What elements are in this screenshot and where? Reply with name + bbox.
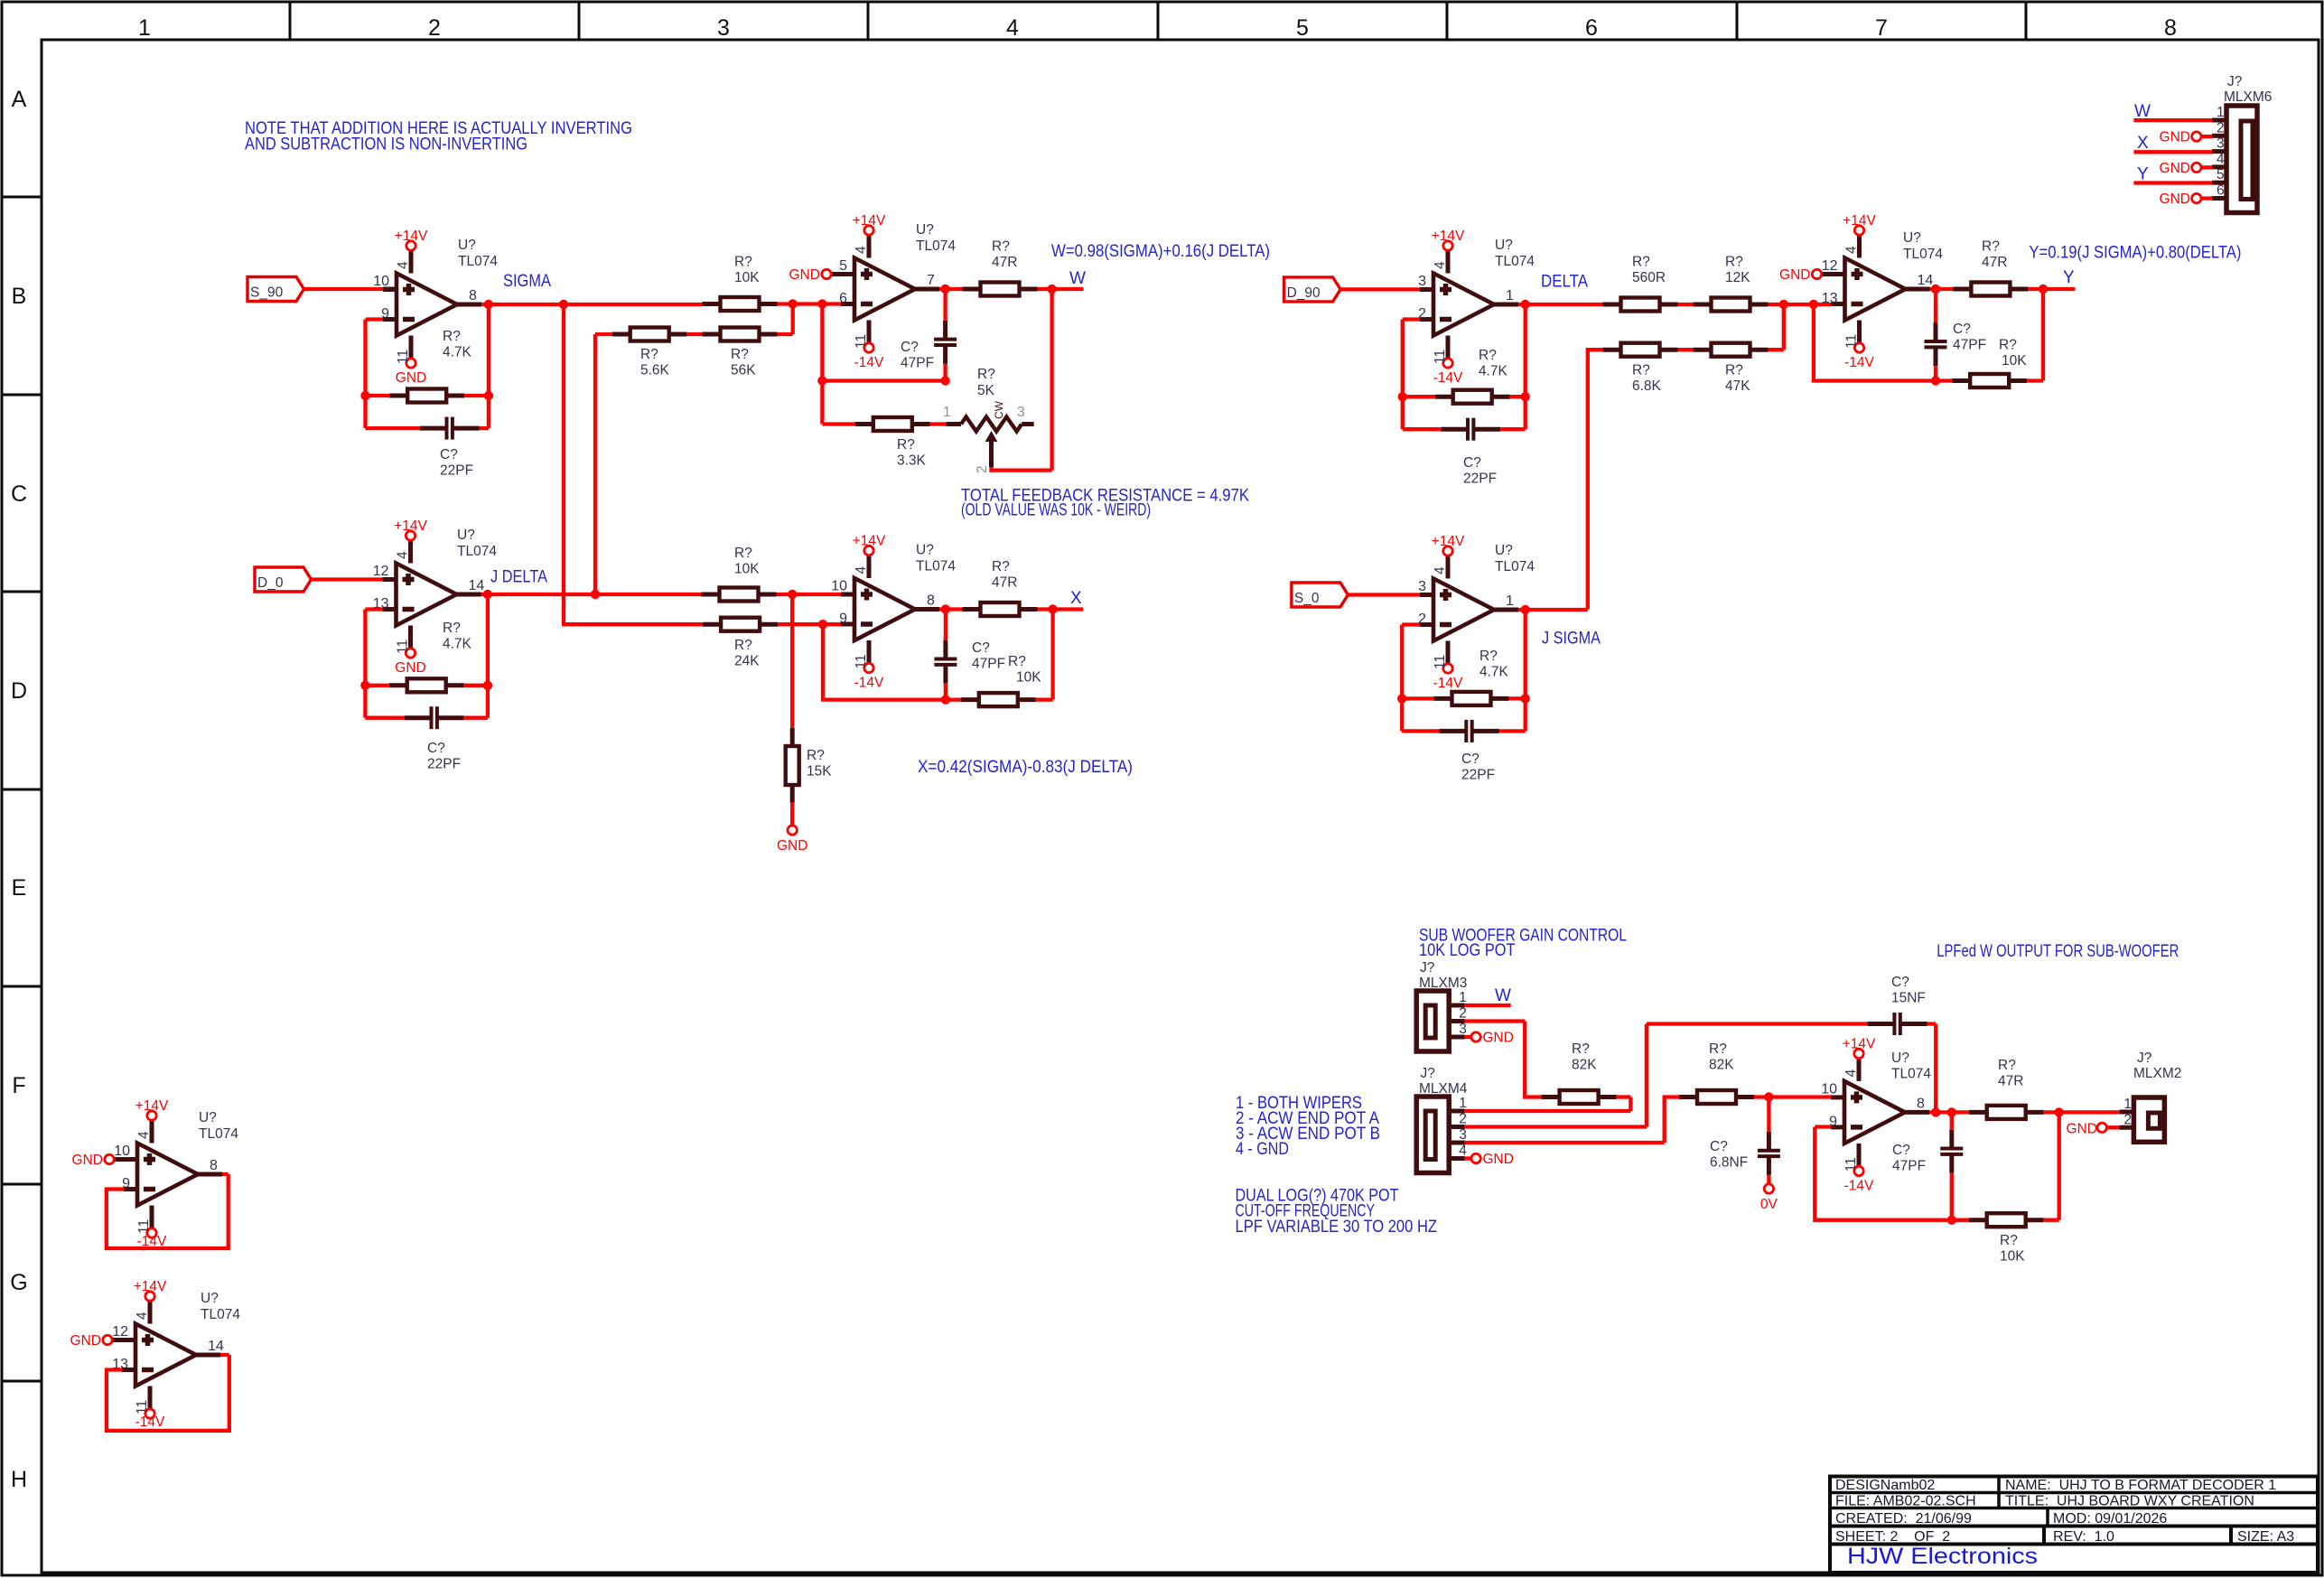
svg-text:11: 11 [135,1400,150,1415]
svg-text:U?: U? [1903,230,1921,246]
op-amp U? TL074 (S_0 buffer) [1433,579,1494,641]
wire 10K to X plus input [777,593,842,596]
svg-text:GND: GND [70,1333,101,1349]
power GND MLXM6 pin4 [2192,163,2201,172]
svg-text:14: 14 [208,1339,224,1354]
svg-text:47R: 47R [1998,1074,2023,1089]
resistor R? 10K (X feedback) [961,697,979,702]
svg-text:11: 11 [1844,334,1860,349]
resistor R? 560R [1603,303,1621,307]
svg-text:5: 5 [2217,167,2225,182]
capacitor C? 6.8NF [1767,1097,1770,1132]
svg-text:TL074: TL074 [916,559,956,574]
svg-text:GND: GND [2160,161,2190,176]
wire sub feedback lower rail [1815,1127,1968,1220]
svg-text:3: 3 [1017,405,1025,420]
svg-text:11: 11 [1433,350,1448,364]
svg-text:MOD: 09/01/2026: MOD: 09/01/2026 [2053,1511,2167,1527]
svg-text:15K: 15K [807,764,832,780]
wire X feedback right riser [1036,610,1053,700]
svg-text:LPF VARIABLE 30 TO 200 HZ: LPF VARIABLE 30 TO 200 HZ [1236,1218,1438,1237]
svg-text:10K: 10K [734,270,760,285]
wire sub feedback right riser [2044,1112,2059,1219]
svg-text:R?: R? [807,748,825,763]
svg-text:W=0.98(SIGMA)+0.16(J DELTA): W=0.98(SIGMA)+0.16(J DELTA) [1051,242,1270,261]
resistor R? 47R (X out) [963,607,981,612]
svg-text:J?: J? [2227,74,2243,89]
svg-text:4: 4 [854,246,869,254]
op-amp U? TL074 (X sum) [854,578,915,640]
op-amp U? TL074 (sub-woofer LPF) [1844,1081,1905,1144]
svg-text:GND: GND [72,1153,103,1168]
svg-text:10: 10 [373,274,389,289]
wire S_0 feedback left vertical [1402,625,1420,732]
resistor R? 10K (sub feedback) [1969,1218,1987,1222]
svg-text:5K: 5K [977,383,995,398]
svg-text:3: 3 [2217,136,2225,152]
svg-text:1: 1 [1506,288,1514,303]
svg-text:R?: R? [734,546,752,561]
svg-text:TL074: TL074 [1891,1067,1931,1082]
svg-text:0V: 0V [1760,1197,1778,1212]
svg-text:8: 8 [469,288,477,303]
wire node A to W minus input [778,302,842,305]
svg-text:R?: R? [1709,1041,1727,1057]
svg-text:7: 7 [1875,15,1888,41]
wire 5.6K-56K row [595,304,793,334]
wire X output row [939,607,963,611]
svg-text:F: F [12,1073,25,1098]
svg-text:TL074: TL074 [458,254,498,269]
svg-text:REV: 1.0: REV: 1.0 [2053,1529,2114,1545]
wire D_90 feedback right vertical [1524,304,1527,429]
svg-text:W: W [1069,269,1086,288]
svg-text:NAME: UHJ TO B FORMAT DECODER: NAME: UHJ TO B FORMAT DECODER 1 [2005,1478,2276,1493]
port D_90 [1284,277,1341,302]
svg-text:W: W [1495,986,1511,1005]
svg-text:12K: 12K [1725,270,1750,285]
svg-text:GND: GND [1779,267,1810,283]
svg-text:U?: U? [1891,1050,1909,1066]
top ruler ticks [289,2,292,40]
svg-text:GND: GND [396,370,426,386]
svg-text:X: X [2137,134,2149,153]
potentiometer R? 5K [946,422,961,426]
wire MLXM4 pin3 row [1465,1097,1679,1144]
power GND MLXM6 pin2 [2192,132,2201,141]
svg-text:11: 11 [854,334,869,349]
svg-text:4: 4 [136,1131,152,1139]
wire W feedback lower rail [822,304,945,425]
svg-text:4.7K: 4.7K [1479,665,1509,680]
svg-text:10K: 10K [2002,353,2027,369]
wire X to MLXM6 pin3 [2133,150,2212,154]
svg-text:X=0.42(SIGMA)-0.83(J DELTA): X=0.42(SIGMA)-0.83(J DELTA) [918,758,1133,777]
svg-text:+14V: +14V [1843,213,1876,229]
svg-text:U?: U? [199,1110,217,1125]
svg-text:H: H [11,1467,27,1492]
svg-text:U?: U? [457,528,475,543]
svg-text:47R: 47R [992,575,1017,591]
svg-text:4: 4 [1006,15,1019,41]
svg-text:+14V: +14V [1432,534,1465,549]
capacitor C? 15NF [1647,1022,1868,1025]
svg-text:J DELTA: J DELTA [490,568,547,587]
wire 47R to W node [1038,287,1084,291]
svg-text:4: 4 [1433,566,1448,574]
svg-text:GND: GND [2160,191,2190,207]
power 0V [1764,1184,1773,1193]
svg-text:R?: R? [992,239,1010,255]
svg-text:11: 11 [1433,655,1448,669]
wire 47R to MLXM2 [2044,1110,2120,1114]
svg-text:2: 2 [1459,1112,1467,1127]
svg-text:D: D [11,678,27,704]
wire 560R-12K row to Y minus [1678,303,1832,306]
svg-text:47PF: 47PF [1953,338,1986,353]
svg-text:4.7K: 4.7K [443,345,472,360]
svg-text:12: 12 [112,1324,128,1340]
resistor R? 10K (Y feedback) [1952,378,1970,383]
svg-text:GND: GND [1483,1152,1514,1167]
svg-text:10K LOG POT: 10K LOG POT [1419,941,1516,960]
svg-text:TITLE: UHJ BOARD WXY CREATION: TITLE: UHJ BOARD WXY CREATION [2005,1494,2254,1509]
wire 47R to X node [1038,607,1084,611]
svg-text:22PF: 22PF [440,463,473,479]
svg-text:CREATED: 21/06/99: CREATED: 21/06/99 [1835,1511,1972,1527]
svg-text:3: 3 [717,15,730,41]
svg-text:12: 12 [1822,258,1838,274]
resistor R? 5.6K [612,332,630,337]
svg-text:R?: R? [443,621,461,636]
wire SIGMA output row [481,303,703,306]
svg-text:11: 11 [1843,1157,1859,1172]
svg-text:2: 2 [2123,1112,2132,1127]
svg-text:-14V: -14V [135,1415,165,1430]
svg-text:U?: U? [916,222,934,238]
svg-text:+14V: +14V [134,1279,167,1294]
svg-text:22PF: 22PF [427,757,461,772]
svg-text:DELTA: DELTA [1541,273,1588,292]
svg-text:14: 14 [469,578,485,593]
svg-text:J?: J? [1420,960,1435,976]
wire Y to MLXM6 pin5 [2133,181,2212,184]
capacitor C? 22PF (D_0 feedback) [405,715,432,720]
svg-text:C?: C? [1461,752,1479,767]
svg-text:+14V: +14V [395,229,428,244]
svg-text:10K: 10K [1016,670,1041,686]
svg-text:CW: CW [993,400,1005,419]
resistor R? 12K [1694,303,1712,307]
svg-text:R?: R? [1479,348,1497,363]
wire DELTA output row [1518,303,1603,306]
svg-text:-14V: -14V [854,676,884,691]
resistor R? 82K (second) [1679,1095,1697,1099]
wire spare F feedback loop [107,1174,229,1248]
connector J? MLXM6 [2226,106,2257,213]
wire J DELTA output row [481,593,703,596]
svg-text:2: 2 [428,15,441,41]
title block frame [1830,1477,2318,1573]
power GND (15K) [788,826,797,835]
svg-text:R?: R? [992,559,1010,574]
svg-text:TL074: TL074 [1903,247,1943,262]
wire MLXM4 pin1 row [1465,1097,1631,1112]
resistor R? 4.7K (D_90 feedback) [1435,395,1453,399]
wire Y output row [1930,287,1954,291]
svg-text:MLXM4: MLXM4 [1419,1081,1468,1097]
svg-text:4.7K: 4.7K [1479,364,1508,379]
wire X feedback lower rail [823,624,961,699]
resistor R? 47K [1694,348,1712,352]
svg-text:C?: C? [972,640,990,656]
connector J? MLXM2 [2133,1097,2164,1142]
svg-text:R?: R? [734,638,752,653]
op-amp U? TL074 (spare F) [137,1144,198,1206]
svg-text:4 - GND: 4 - GND [1236,1140,1289,1159]
svg-text:6: 6 [839,291,847,306]
svg-text:DESIGNamb02: DESIGNamb02 [1835,1478,1935,1493]
svg-text:9: 9 [839,612,847,627]
wire 3.3K to pot [930,422,947,425]
port S_0 [1292,583,1349,607]
svg-text:3: 3 [1418,579,1426,594]
svg-text:D_0: D_0 [257,575,284,591]
wire Y feedback lower rail [1814,304,1952,381]
svg-text:560R: 560R [1632,270,1666,285]
capacitor C? 47PF (W feedback) [943,289,947,321]
svg-text:U?: U? [458,238,476,253]
svg-text:14: 14 [1918,273,1934,288]
resistor R? 47R (sub out) [1969,1110,1987,1115]
capacitor C? 22PF (D_90 feedback) [1441,427,1468,432]
resistor R? 10K (J DELTA to X) [702,593,720,597]
svg-text:GND: GND [789,267,820,283]
svg-text:1: 1 [1506,593,1514,609]
svg-text:B: B [12,284,27,309]
wire Y feedback right riser [2027,289,2043,381]
svg-text:4: 4 [396,551,411,559]
resistor R? 24K (SIGMA to X) [703,622,721,627]
wire D_0 to pin12 [312,577,384,581]
svg-text:8: 8 [2164,15,2177,41]
port S_90 [247,277,304,302]
svg-text:82K: 82K [1572,1058,1597,1073]
svg-text:10: 10 [831,579,847,594]
wire D_0 feedback right vertical [486,594,490,718]
svg-text:C?: C? [1892,1143,1910,1158]
svg-text:J?: J? [2137,1050,2152,1066]
svg-text:Y=0.19(J SIGMA)+0.80(DELTA): Y=0.19(J SIGMA)+0.80(DELTA) [2029,244,2241,263]
power GND MLXM6 pin6 [2192,193,2201,202]
svg-text:C?: C? [1463,455,1481,471]
svg-text:47R: 47R [1982,255,2007,270]
svg-text:+14V: +14V [394,518,427,534]
svg-text:2: 2 [975,465,990,473]
svg-text:4: 4 [396,261,411,269]
svg-text:D_90: D_90 [1287,285,1321,301]
svg-text:6.8NF: 6.8NF [1710,1155,1748,1171]
svg-text:3: 3 [1459,1022,1467,1037]
svg-text:R?: R? [1999,338,2017,353]
op-amp U? TL074 (Y sum) [1845,258,1906,321]
svg-text:A: A [12,87,27,112]
wire 82K2 to sub op-amp [1754,1095,1832,1098]
svg-text:8: 8 [210,1158,218,1173]
svg-text:-14V: -14V [1433,370,1463,386]
svg-text:R?: R? [1725,255,1743,270]
svg-text:4: 4 [1459,1144,1467,1159]
svg-text:1: 1 [943,405,951,420]
resistor R? 47R (W out) [963,287,981,292]
wire S_90 to pin10 [304,287,384,291]
svg-text:TL074: TL074 [199,1126,238,1142]
svg-text:GND: GND [2067,1121,2097,1136]
svg-text:MLXM2: MLXM2 [2133,1066,2181,1081]
resistor R? 47R (Y out) [1953,287,1971,292]
svg-text:4: 4 [2217,152,2225,167]
svg-text:4: 4 [1433,261,1448,269]
svg-text:R?: R? [2000,1233,2018,1248]
svg-text:3.3K: 3.3K [897,453,927,469]
svg-text:C?: C? [427,741,445,756]
svg-text:R?: R? [977,367,995,382]
svg-text:47PF: 47PF [901,356,934,371]
capacitor C? 22PF (op1 feedback) [420,426,447,431]
connector J? MLXM3 [1416,991,1449,1051]
svg-text:+14V: +14V [1843,1036,1876,1051]
power GND MLXM2 pin2 [2097,1123,2106,1132]
svg-text:U?: U? [916,543,934,558]
svg-text:R?: R? [640,347,658,362]
svg-text:U?: U? [1495,238,1513,253]
capacitor C? 47PF (Y feedback) [1934,289,1937,322]
svg-text:GND: GND [395,660,425,676]
wire D_90 feedback left vertical [1403,320,1420,430]
svg-text:R?: R? [731,347,749,362]
wire J DELTA riser x659 [593,334,597,594]
op-amp U? TL074 (spare G) [135,1324,196,1387]
svg-text:C?: C? [1953,322,1971,337]
svg-text:47R: 47R [992,255,1017,270]
connector J? MLXM4 [1416,1097,1449,1173]
svg-text:R?: R? [1632,363,1650,378]
svg-text:U?: U? [1495,543,1513,558]
svg-text:11: 11 [396,350,411,364]
left ruler ticks [2,196,42,199]
svg-text:22PF: 22PF [1461,768,1495,783]
svg-text:S_90: S_90 [250,285,284,301]
svg-text:R?: R? [1572,1041,1590,1057]
svg-text:4.7K: 4.7K [443,637,472,652]
svg-text:FILE: AMB02-02.SCH: FILE: AMB02-02.SCH [1835,1494,1976,1509]
wire 47R to Y node [2028,287,2075,291]
svg-text:7: 7 [927,273,935,288]
wire spare G feedback loop [107,1355,229,1431]
svg-text:R?: R? [897,437,915,453]
wire SIGMA vertical down [564,304,703,624]
svg-text:GND: GND [777,838,807,854]
svg-text:C?: C? [1710,1139,1728,1154]
wire MLXM3 pin2 to 82K [1465,1022,1542,1097]
svg-text:Y: Y [2137,165,2149,184]
wire sub op-amp output row [1929,1110,1969,1114]
svg-text:HJW Electronics: HJW Electronics [1847,1544,2038,1569]
power GND MLXM4 pin4 [1471,1153,1480,1162]
svg-text:10: 10 [114,1144,130,1159]
svg-text:13: 13 [1822,291,1838,306]
svg-text:E: E [12,875,27,901]
svg-text:G: G [10,1270,27,1295]
svg-text:10K: 10K [2000,1249,2025,1265]
svg-text:24K: 24K [734,654,760,669]
wire D_90 to pin3 [1340,287,1420,291]
svg-text:R?: R? [1008,654,1026,669]
wire 6.8K-47K row [1588,304,1784,610]
svg-text:-14V: -14V [1844,1178,1874,1193]
resistor R? 4.7K (S_0 feedback) [1434,696,1452,701]
svg-text:10: 10 [1821,1081,1837,1097]
svg-text:S_0: S_0 [1294,591,1320,606]
svg-text:SHEET: 2 OF 2: SHEET: 2 OF 2 [1835,1529,1950,1545]
wire 24K to X minus input [778,622,841,626]
svg-text:GND: GND [2160,130,2190,145]
svg-text:8: 8 [1917,1096,1925,1111]
power GND MLXM3 pin3 [1471,1032,1480,1041]
svg-text:TL074: TL074 [1495,254,1535,269]
svg-text:56K: 56K [731,363,756,378]
svg-text:1: 1 [2217,105,2225,120]
svg-text:11: 11 [396,640,411,654]
svg-text:4: 4 [854,566,869,574]
svg-text:5: 5 [839,258,847,274]
wire J SIGMA output row [1518,608,1588,612]
svg-text:3: 3 [1418,274,1426,289]
svg-text:+14V: +14V [853,213,886,229]
svg-text:1: 1 [1459,1096,1467,1111]
svg-text:4: 4 [1844,246,1860,254]
svg-text:W: W [2134,102,2151,121]
svg-text:4: 4 [135,1312,150,1320]
wire S_0 feedback right vertical [1524,610,1527,731]
wire W output row [939,287,963,291]
svg-text:TL074: TL074 [457,544,497,559]
resistor R? 3.3K [822,422,855,425]
svg-text:2: 2 [1459,1006,1467,1022]
svg-text:R?: R? [1725,363,1743,378]
svg-text:47PF: 47PF [1892,1159,1926,1174]
svg-text:5.6K: 5.6K [640,363,670,378]
svg-text:6: 6 [2217,183,2225,199]
svg-text:6.8K: 6.8K [1632,378,1662,394]
op-amp U? TL074 (W sum) [854,258,915,321]
resistor R? 56K [703,332,721,337]
svg-text:5: 5 [1296,15,1309,41]
wire 82K1 to riser [1617,1095,1631,1098]
svg-text:C?: C? [901,340,919,355]
svg-text:R?: R? [1982,239,2000,255]
svg-text:C?: C? [440,447,458,462]
svg-text:Y: Y [2063,268,2075,287]
op-amp U? TL074 (S_90 buffer) [397,274,457,336]
svg-text:MLXM3: MLXM3 [1419,976,1467,991]
svg-text:SIGMA: SIGMA [503,272,551,291]
svg-text:1: 1 [1459,990,1467,1005]
wire pot wiper to W node [992,289,1052,471]
wire op1 feedback right vertical [487,304,490,428]
svg-text:-14V: -14V [1433,676,1463,691]
resistor R? 4.7K (op1 feedback) [389,394,407,398]
